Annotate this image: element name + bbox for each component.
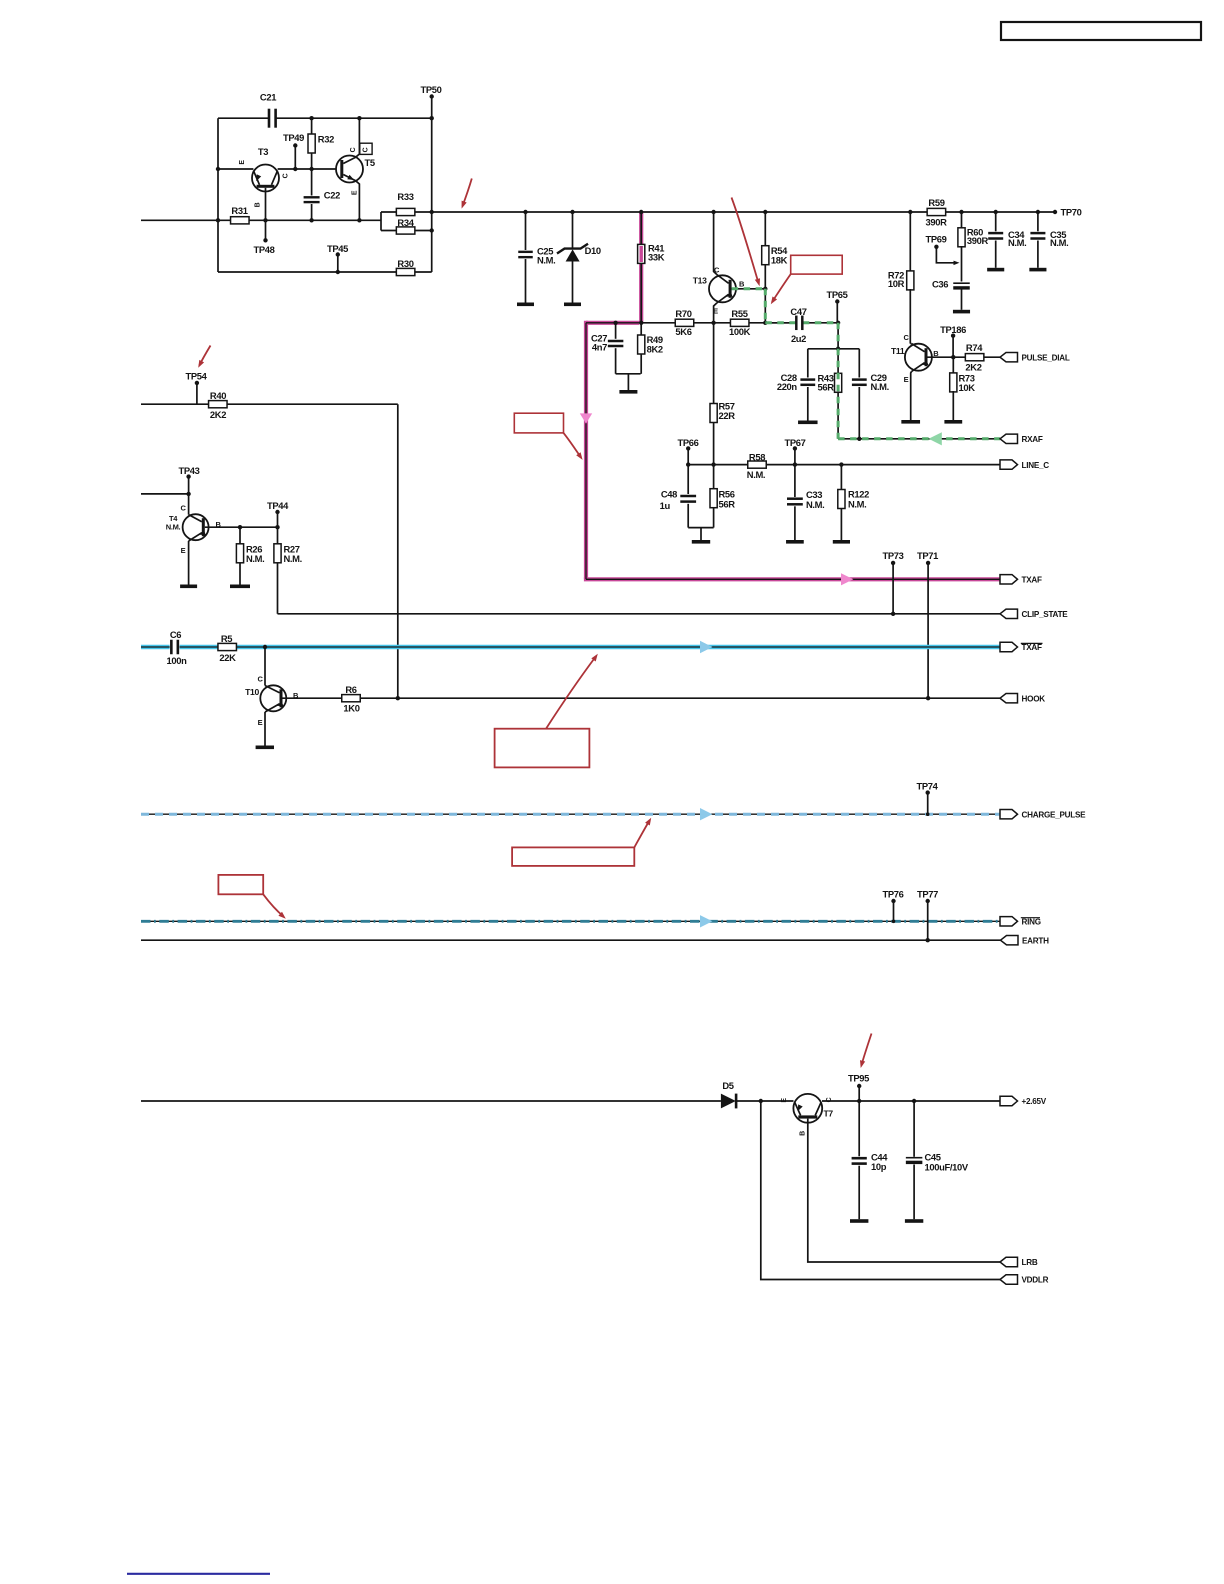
svg-text:C: C [350,147,357,152]
red curved arrow to bus [462,179,472,209]
connector RING-bar [1000,917,1041,927]
blue underline bottom-left [127,1573,270,1575]
junction C44 on rail [857,1099,861,1103]
ground of C28 [798,421,818,425]
svg-text:TP44: TP44 [267,500,289,511]
wire VDDLR branch [761,1101,1000,1280]
svg-text:R70: R70 [675,308,691,319]
testpoint TP95 [848,1073,869,1089]
svg-text:N.M.: N.M. [246,553,264,564]
ground of C36 [953,310,970,314]
red annotation box (RING) [218,875,263,894]
testpoint TP74 [916,781,938,816]
capacitor C21 [260,92,277,128]
svg-text:TP66: TP66 [677,437,698,448]
zener diode D10 [557,212,601,303]
wire T11 emitter to ground [901,371,920,423]
transistor T7 [781,1094,833,1136]
wire green vertical TP65 node down [837,323,839,349]
svg-text:CHARGE_PULSE: CHARGE_PULSE [1022,810,1087,819]
red leader arrow to blue TXAF rail [546,654,598,729]
capacitor C35 N.M. [1030,212,1068,268]
junction R57/R56 on LINE_C rail [711,462,715,466]
testpoint TP71 [917,550,938,698]
capacitor C34 N.M. [988,212,1026,268]
svg-text:E: E [781,1098,788,1103]
testpoint TP77 [917,889,938,941]
wire R31 input stub [141,219,218,221]
svg-text:33K: 33K [648,252,665,263]
label box C1/C2 at T5 collector [350,143,372,154]
svg-text:D5: D5 [722,1080,733,1091]
svg-text:100K: 100K [729,326,751,337]
junction R26 tap [238,525,242,529]
blue arrow on RING [700,915,712,927]
capacitor C36 [932,279,970,310]
svg-text:+2.65V: +2.65V [1022,1097,1047,1106]
resistor R55 [729,308,751,337]
transistor T3 [239,146,290,207]
junction R55 right / green node [763,321,767,325]
resistor R32 [308,118,334,169]
testpoint TP70 [1053,206,1082,217]
ground of D10 [564,303,581,307]
svg-text:N.M.: N.M. [747,469,765,480]
junction R33 output [430,210,434,214]
svg-text:TP74: TP74 [916,781,938,792]
resistor R6 1K0 [342,684,361,714]
resistor R59 [925,197,947,227]
connector EARTH [1001,936,1019,945]
wire T10 emitter to ground [256,712,274,749]
svg-text:T3: T3 [258,146,268,157]
wire TP43 stub rail [141,493,189,495]
wire green vertical B to R55 node [764,289,766,323]
svg-text:18K: 18K [771,255,788,266]
capacitor C25 N.M. [518,212,555,303]
red annotation box (CHARGE_PULSE) [512,847,634,866]
capacitor C27 [591,323,641,374]
svg-text:TP95: TP95 [848,1073,869,1084]
resistor R33 [381,191,432,216]
resistor R43 [818,349,842,439]
red arrow to TP54 [198,346,210,368]
wire T4 collector [188,494,190,515]
capacitor C45 100uF/10V [906,1101,969,1219]
svg-text:T11: T11 [891,346,905,356]
connector RXAF [1000,434,1018,443]
connector PULSE_DIAL [1000,353,1018,362]
wire T4 emitter to ground [180,541,197,588]
svg-text:TP65: TP65 [826,289,847,300]
svg-text:RING: RING [1022,918,1041,927]
junction C29 bottom on green wire [857,437,861,441]
pink arrow on magenta vertical [580,413,592,423]
svg-text:2u2: 2u2 [791,333,806,344]
blue arrow on CHARGE_PULSE [700,808,712,820]
connector CHARGE_PULSE [1000,810,1018,819]
wire T3 base lead [265,188,267,221]
svg-text:R59: R59 [928,197,944,208]
red annotation box (magenta wire) [514,413,563,433]
junction TP66/C48 node [686,462,690,466]
junction C22 bottom on rail [309,218,313,222]
testpoint TP69 with pointer [926,234,960,266]
junction D10 on bus [570,210,574,214]
wire TP50 vertical [431,97,433,273]
testpoint TP65 [826,289,847,323]
wire R70 to R55 rail (y=323) [641,322,796,324]
svg-text:C48: C48 [661,489,677,500]
ground of C33 [786,540,804,544]
resistor R34 [381,217,432,234]
svg-text:R31: R31 [231,205,247,216]
wire bracket C28/R43/C29 top [808,348,860,350]
testpoint TP66 [677,437,698,465]
resistor R41 [638,243,665,264]
svg-text:390R: 390R [925,216,947,227]
junction TP73 on CLIP_STATE [891,612,895,616]
transistor T4 N.M. [166,504,222,556]
svg-text:10K: 10K [959,382,976,393]
ground of R26 [230,585,250,589]
wire T3 collector to R32/T5 base [278,168,336,170]
junction R32 top [309,116,313,120]
wire T13 collector to bus [714,212,717,275]
junction T10 collector on blue rail [263,645,267,649]
svg-text:8K2: 8K2 [647,343,663,354]
svg-text:R5: R5 [221,633,232,644]
connector TXAF (magenta) [1000,575,1018,584]
pink arrow on magenta horizontal [841,573,853,585]
junction T13 collector on bus [711,210,715,214]
svg-text:CLIP_STATE: CLIP_STATE [1022,610,1069,619]
wire EARTH rail [141,939,1001,941]
junction R41 on bus [639,210,643,214]
red leader arrow to RING rail [263,894,286,919]
junction TP43 node [186,492,190,496]
junction TP65 node [836,321,840,325]
resistor R31 [231,205,250,224]
wire RING rail [141,920,1000,922]
svg-text:PULSE_DIAL: PULSE_DIAL [1022,353,1070,362]
resistor R40 2K2 [209,390,228,420]
green arrow on RXAF wire [929,432,942,445]
svg-text:4n7: 4n7 [592,342,607,353]
red leader arrow to green vertical [771,274,791,304]
svg-text:TXAF: TXAF [1022,643,1043,652]
wire green RXAF horizontal [838,438,1000,440]
svg-text:C36: C36 [932,279,948,290]
capacitor C44 10p [852,1152,889,1220]
wire blue TXAF rail [141,646,1000,648]
svg-text:T7: T7 [824,1109,834,1119]
svg-text:N.M.: N.M. [284,553,302,564]
junction C45 on rail [912,1099,916,1103]
connector +2.65V [1000,1096,1018,1105]
capacitor C28 [777,349,815,421]
resistor R58 N.M. [747,451,766,480]
junction R40 net / HOOK rail [396,696,400,700]
svg-text:C47: C47 [790,306,806,317]
wire T5 emitter down to rail [356,181,360,221]
svg-text:HOOK: HOOK [1022,694,1046,703]
svg-text:LINE_C: LINE_C [1022,461,1050,470]
junction C35 on bus [1036,210,1040,214]
resistor R122 N.M. [838,465,869,540]
connector TXAF-bar (blue) [1000,642,1043,652]
junction C25 on bus [523,210,527,214]
resistor R60 390R [958,212,989,282]
svg-text:E: E [239,160,246,165]
svg-text:N.M.: N.M. [166,523,181,532]
wire HOOK rail [283,697,1001,699]
ground of R122 [833,540,850,544]
blue arrow on TXAF rail [700,641,712,653]
wire R40 rail (y=404) [141,403,209,405]
svg-text:T5: T5 [365,157,375,168]
svg-text:TP54: TP54 [185,371,207,382]
svg-text:C21: C21 [260,92,276,103]
resistor R30 [396,258,415,275]
svg-text:TP186: TP186 [940,324,966,335]
red leader arrow to CHARGE_PULSE rail [634,818,651,848]
svg-text:R6: R6 [345,684,356,695]
wire oscillator bottom rail (y=272) [218,271,432,273]
svg-text:5K6: 5K6 [675,326,691,337]
testpoint TP50 [420,84,441,99]
svg-text:56R: 56R [818,382,835,393]
svg-text:R58: R58 [749,451,765,462]
svg-text:VDDLR: VDDLR [1022,1276,1049,1285]
diode D5 [721,1080,737,1108]
ground of C25 [517,303,534,307]
wire T13 base (green net start) [732,288,766,290]
testpoint TP73 [882,550,903,614]
svg-text:E: E [352,190,359,195]
svg-text:C: C [362,147,369,152]
red leader arrow to magenta wire [564,433,583,460]
resistor R27 N.M. [274,527,302,614]
resistor R26 N.M. [236,527,264,584]
junction R72 top on bus [908,210,912,214]
testpoint TP67 [784,437,805,465]
capacitor C6 100n [167,629,188,666]
transistor T5 [336,156,375,196]
junction R49/R41 bottom node [639,321,643,325]
svg-text:TP43: TP43 [178,465,199,476]
svg-text:N.M.: N.M. [871,381,889,392]
connector LRB [1000,1257,1018,1266]
ground of C35 [1029,268,1046,272]
connector CLIP_STATE [1000,609,1018,618]
svg-text:TP49: TP49 [283,132,304,143]
svg-text:TP77: TP77 [917,889,938,900]
wire R41 branch core [586,212,1000,579]
svg-text:R30: R30 [397,258,413,269]
capacitor C29 N.M. [852,349,889,439]
resistor R57 [710,323,735,465]
svg-text:100n: 100n [167,655,188,666]
capacitor C48 [660,465,696,528]
junction TP71 on HOOK [926,696,930,700]
wire D5 to T7 emitter [736,1100,794,1102]
wire T7 base to LRB [808,1119,1000,1262]
svg-text:R74: R74 [966,342,983,353]
svg-text:R34: R34 [397,217,414,228]
wire T7 collector to +2.65V tag [822,1100,1000,1102]
svg-text:1K0: 1K0 [343,703,359,714]
svg-text:100uF/10V: 100uF/10V [925,1162,969,1173]
svg-text:10p: 10p [871,1161,887,1172]
red arrow to TP95 [860,1034,872,1069]
junction TP45 on bottom rail [336,270,340,274]
resistor R73 10K [950,357,976,420]
svg-text:B: B [255,202,262,207]
ground of C34 [987,268,1004,272]
wire T4 base rail [205,526,278,528]
wire T3 emitter to left rail [218,168,253,170]
junction left rail / R31 wire [216,218,220,222]
svg-text:RXAF: RXAF [1022,435,1043,444]
junction TP77 on EARTH [926,938,930,942]
svg-text:N.M.: N.M. [848,499,866,510]
wire top feedback (y=118) [218,117,268,119]
svg-text:220n: 220n [777,381,798,392]
ground of C27/R49 [619,374,637,394]
svg-text:C6: C6 [170,629,181,640]
red annotation box (blue TXAF) [495,729,590,768]
svg-text:R33: R33 [397,191,413,202]
svg-text:N.M.: N.M. [1050,237,1068,248]
svg-text:TP69: TP69 [926,234,947,245]
svg-text:10R: 10R [888,278,905,289]
transistor T11 [891,333,939,384]
svg-text:E: E [258,718,263,727]
svg-text:2K2: 2K2 [210,409,226,420]
junction T13 base / R54 node [763,287,767,291]
svg-text:TP45: TP45 [327,243,348,254]
transistor T10 [245,675,299,728]
svg-text:LRB: LRB [1022,1258,1038,1267]
wire main supply bus (y=212) [432,211,1055,213]
junction T5 emitter on rail [357,218,361,222]
junction R122 on LINE_C rail [839,462,843,466]
transistor T13 [693,266,745,316]
wire T10 collector up [264,647,266,686]
svg-text:N.M.: N.M. [1008,237,1026,248]
svg-text:D10: D10 [585,245,601,256]
junction C34 on bus [994,210,998,214]
capacitor C33 N.M. [787,465,824,540]
svg-text:56R: 56R [719,498,736,509]
wire LINE_C rail (y=464.6) [688,464,1000,466]
wire R40 net vertical down to HOOK rail [397,404,399,698]
svg-text:390R: 390R [967,235,989,246]
testpoint TP186 [940,324,966,357]
wire CHARGE_PULSE rail [141,813,1000,815]
svg-text:N.M.: N.M. [537,254,555,265]
red annotation box (T13 base) [791,255,843,274]
wire parallel bracket R33/R34 [380,212,382,231]
junction R60 on bus [959,210,963,214]
resistor R72 10R [888,212,914,344]
wire green through C47 [765,322,838,324]
junction T13 emitter / R70 / R55 / R57 node [711,321,715,325]
connector HOOK [1000,694,1018,703]
testpoint TP44 [267,500,289,527]
svg-text:N.M.: N.M. [806,499,824,510]
wire magenta TXAF highlight path [584,212,1000,579]
svg-text:22R: 22R [719,410,736,421]
junction R32/C22/T5-base node [309,167,313,171]
svg-text:TXAF: TXAF [1022,576,1043,585]
resistor R5 22K [218,633,237,663]
junction TP49 on collector wire [293,167,297,171]
connector VDDLR [1000,1275,1018,1284]
resistor R54 [762,212,788,289]
svg-text:TP76: TP76 [882,889,903,900]
svg-text:TP70: TP70 [1061,206,1082,217]
resistor R49 [638,323,663,374]
svg-text:R40: R40 [210,390,226,401]
resistor R56 [710,465,735,528]
junction VDDLR tap [759,1099,763,1103]
capacitor C47 [790,306,806,344]
wire +2.65V rail [141,1100,721,1102]
svg-text:22K: 22K [219,652,236,663]
testpoint TP43 [178,465,199,494]
testpoint TP76 [882,889,903,923]
connector LINE_C [1000,460,1018,469]
testpoint TP45 [327,243,348,272]
junction bracket center [836,347,840,351]
svg-text:TP71: TP71 [917,550,938,561]
capacitor C22 [304,169,340,220]
svg-text:TP48: TP48 [253,244,274,255]
svg-text:TP73: TP73 [882,550,903,561]
wire TP95/C44 branch [858,1086,860,1156]
wire CLIP_STATE rail [278,613,1001,615]
wire base rail (y=220) [218,219,381,221]
testpoint TP49 [283,132,304,169]
junction T3 base on rail [263,218,267,222]
junction TP50/top rail [430,116,434,120]
junction T5 collector top [357,116,361,120]
wire C48/R56 bottom bracket [688,527,713,529]
ground of C45 [905,1219,923,1223]
ground of R73 [944,420,962,424]
junction TP67/C33 node [793,462,797,466]
svg-text:E: E [904,375,909,384]
svg-text:C: C [283,173,290,178]
junction TP186/R73 node [951,355,955,359]
svg-text:2K2: 2K2 [965,361,981,372]
svg-text:C22: C22 [324,190,340,201]
svg-text:T13: T13 [693,276,707,286]
svg-text:T10: T10 [245,687,259,697]
junction TP44/R27 node [275,525,279,529]
ground of C44 [850,1219,868,1223]
resistor R70 [675,308,694,337]
ground of C48/R56 [692,528,710,544]
svg-text:EARTH: EARTH [1022,936,1049,945]
svg-text:TP50: TP50 [420,84,441,95]
wire T11 base to R74 [928,356,967,358]
svg-text:R55: R55 [731,308,747,319]
svg-text:1u: 1u [660,500,671,511]
wire left rail of oscillator block [217,118,219,272]
